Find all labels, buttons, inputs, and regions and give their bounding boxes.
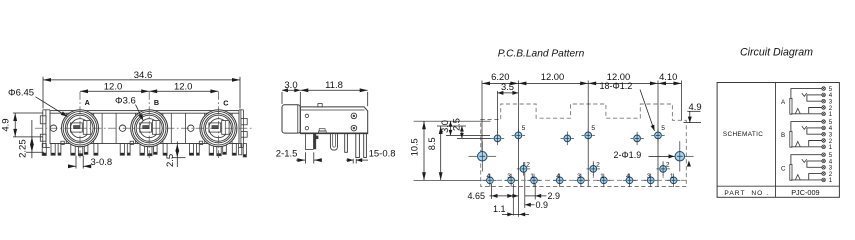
row ext line to 3.0 dim bbox=[446, 134, 490, 136]
dim 2-1.5 bbox=[304, 152, 306, 163]
svg-text:PART NO .: PART NO . bbox=[724, 190, 769, 197]
dim 3-0.8 bbox=[75, 156, 77, 169]
front view: jack centerlines bbox=[79, 92, 81, 158]
jack B: front face bbox=[131, 110, 168, 147]
svg-text:2: 2 bbox=[596, 162, 600, 169]
land pattern: board outline (dashed) bbox=[481, 104, 687, 187]
hole pin1 C bbox=[670, 177, 677, 184]
hole pin2 A bbox=[520, 166, 527, 173]
terminal 1 of A bbox=[822, 112, 826, 116]
svg-text:4: 4 bbox=[626, 173, 630, 180]
dim 0.9 bbox=[525, 204, 535, 206]
svg-text:3.5: 3.5 bbox=[501, 81, 514, 92]
hole pin4 A bbox=[487, 177, 494, 184]
hole pin5 C bbox=[655, 132, 662, 139]
wire pin2 C bbox=[809, 174, 822, 180]
wire pin3 C bbox=[807, 161, 822, 167]
dim 3.5 bbox=[496, 91, 498, 133]
hole pin3 C bbox=[647, 177, 654, 184]
small arrow below right mounting hole bbox=[687, 161, 691, 167]
terminal 3 of B bbox=[822, 132, 826, 136]
terminal 1 of C bbox=[822, 178, 826, 182]
hole shield B bbox=[564, 135, 571, 142]
pins of jack B bbox=[120, 144, 124, 156]
side view: pin row 4 bbox=[364, 134, 367, 158]
mounting hole right (phi 1.9) bbox=[675, 152, 685, 162]
svg-text:2: 2 bbox=[666, 162, 670, 169]
jack B: side contact bbox=[153, 121, 160, 135]
terminal 2 of B bbox=[822, 139, 826, 143]
front view: left bracket leg bbox=[42, 144, 46, 156]
sleeve bar C bbox=[790, 165, 792, 181]
hook pin of jack A bbox=[58, 144, 61, 156]
wire pin1 with switch contact C bbox=[791, 179, 822, 181]
svg-text:12.0: 12.0 bbox=[104, 82, 123, 93]
dim 12.0 B-C bbox=[149, 90, 218, 92]
jack C: side contact bbox=[222, 121, 229, 135]
terminal 4 of A bbox=[822, 93, 826, 97]
wire pin4 with switch contact A bbox=[807, 94, 822, 96]
terminal 4 of B bbox=[822, 126, 826, 130]
wire pin3 B bbox=[807, 128, 822, 134]
wire pin5 A bbox=[791, 89, 822, 99]
svg-text:8.5: 8.5 bbox=[427, 137, 437, 150]
terminal 5 of C bbox=[822, 153, 826, 157]
svg-text:2.5: 2.5 bbox=[165, 154, 176, 167]
sleeve bar A bbox=[790, 98, 792, 114]
dim 3.0 bbox=[281, 92, 283, 104]
svg-text:10.5: 10.5 bbox=[409, 138, 419, 156]
jack C: contact slot bbox=[209, 123, 221, 132]
side view: arch leg bbox=[330, 134, 337, 151]
svg-text:3: 3 bbox=[507, 173, 511, 180]
side view: rivets bbox=[351, 113, 357, 119]
ext verticals bbox=[491, 184, 493, 199]
dim 2.9 bbox=[511, 195, 518, 197]
hole shield A bbox=[494, 135, 501, 142]
pin2 column dashes B C bbox=[592, 161, 594, 180]
svg-text:C: C bbox=[781, 165, 786, 172]
land pattern: column centerlines bbox=[481, 81, 483, 162]
wire pin1 with switch contact A bbox=[791, 113, 822, 115]
pins of jack C bbox=[189, 144, 193, 156]
svg-text:2-Φ1.9: 2-Φ1.9 bbox=[614, 150, 642, 160]
jack B: contact slot bbox=[140, 123, 152, 132]
front view: connector body bbox=[50, 111, 239, 144]
pin2 column line group A bbox=[524, 162, 526, 208]
front view: horizontal centerline bbox=[35, 127, 252, 129]
dim 11.8 bbox=[367, 92, 369, 106]
wire pin1 with switch contact B bbox=[791, 146, 822, 148]
dim 2.5 under B bbox=[172, 157, 186, 159]
svg-text:1.1: 1.1 bbox=[493, 204, 506, 214]
svg-text:4.9: 4.9 bbox=[689, 101, 702, 112]
jack A: contact slot bbox=[71, 123, 83, 132]
svg-text:B: B bbox=[154, 98, 159, 107]
circuit diagram table bbox=[717, 83, 839, 198]
hole pin2 C bbox=[660, 166, 667, 173]
jack C: front face bbox=[200, 110, 237, 147]
hole pin4 B bbox=[556, 177, 563, 184]
svg-text:Φ6.45: Φ6.45 bbox=[8, 88, 34, 99]
wire pin4 with switch contact C bbox=[807, 160, 822, 162]
svg-text:15-0.8: 15-0.8 bbox=[369, 148, 396, 159]
hole pin4 C bbox=[626, 177, 633, 184]
terminal 5 of A bbox=[822, 87, 826, 91]
side view: front bezel bbox=[282, 105, 300, 133]
hole pin2 B bbox=[590, 166, 597, 173]
svg-text:12.00: 12.00 bbox=[541, 71, 564, 82]
dim 8.5 bbox=[440, 126, 442, 180]
hook pin of jack C bbox=[197, 144, 200, 156]
terminal 2 of A bbox=[822, 106, 826, 110]
front view: left mounting bracket bbox=[42, 110, 44, 148]
svg-text:1: 1 bbox=[530, 173, 534, 180]
dim 12.0 A-B bbox=[80, 90, 149, 92]
ref lines bbox=[414, 120, 491, 122]
svg-text:SCHEMATIC: SCHEMATIC bbox=[723, 131, 763, 138]
svg-text:2: 2 bbox=[526, 162, 530, 169]
dim 3.0 vertical bbox=[450, 121, 452, 135]
svg-text:1: 1 bbox=[829, 144, 833, 151]
terminal 4 of C bbox=[822, 159, 826, 163]
front view: right bracket legs bbox=[239, 144, 242, 155]
hole pin3 A bbox=[508, 177, 515, 184]
svg-text:4: 4 bbox=[487, 173, 491, 180]
side view: body bbox=[300, 107, 367, 134]
hook pin of jack B bbox=[127, 144, 130, 156]
wire pin5 C bbox=[791, 155, 822, 165]
svg-text:3: 3 bbox=[577, 173, 581, 180]
wire pin2 B bbox=[809, 141, 822, 147]
svg-text:PJC-009: PJC-009 bbox=[791, 188, 819, 197]
svg-text:2.25: 2.25 bbox=[18, 139, 29, 158]
svg-text:4: 4 bbox=[556, 173, 560, 180]
hole pin5 A bbox=[515, 132, 522, 139]
svg-text:A: A bbox=[85, 98, 90, 107]
dim 15-0.8 bbox=[352, 159, 354, 164]
terminal 3 of A bbox=[822, 99, 826, 103]
wire pin5 B bbox=[791, 122, 822, 132]
front view: right mounting bracket bbox=[240, 110, 242, 148]
svg-text:3.0: 3.0 bbox=[284, 80, 297, 91]
mounting hole left (phi 1.9) bbox=[478, 152, 488, 162]
svg-text:4.65: 4.65 bbox=[468, 191, 486, 201]
terminal 5 of B bbox=[822, 120, 826, 124]
svg-text:1: 1 bbox=[829, 177, 833, 184]
bottom row dashed line bbox=[481, 179, 686, 181]
svg-text:4.10: 4.10 bbox=[659, 71, 677, 82]
svg-text:2.5: 2.5 bbox=[451, 118, 461, 131]
svg-text:34.6: 34.6 bbox=[134, 70, 153, 81]
svg-text:B: B bbox=[781, 132, 785, 139]
svg-text:3: 3 bbox=[647, 173, 651, 180]
svg-text:3-0.8: 3-0.8 bbox=[91, 157, 113, 168]
hole pin1 B bbox=[600, 177, 607, 184]
svg-text:12.0: 12.0 bbox=[174, 82, 193, 93]
dim 4.9 left bbox=[13, 112, 43, 114]
svg-text:C: C bbox=[223, 98, 228, 107]
terminal 2 of C bbox=[822, 172, 826, 176]
svg-text:Circuit Diagram: Circuit Diagram bbox=[740, 46, 813, 58]
dim 34.6 bbox=[42, 77, 44, 109]
hole pin3 B bbox=[578, 177, 585, 184]
terminal 3 of C bbox=[822, 166, 826, 170]
svg-text:0.9: 0.9 bbox=[536, 200, 549, 210]
svg-text:3.0: 3.0 bbox=[440, 120, 450, 133]
svg-text:5: 5 bbox=[591, 125, 595, 132]
jack A: front face bbox=[62, 110, 99, 147]
front view: small panel holes bbox=[50, 125, 56, 131]
svg-text:1: 1 bbox=[829, 111, 833, 118]
top dimension row 6.20 / 12.00 / 12.00 / 4.10 bbox=[482, 82, 682, 84]
sleeve bar B bbox=[790, 131, 792, 147]
hole pin1 A bbox=[531, 177, 538, 184]
side view: pin row 3 bbox=[356, 134, 360, 158]
side view: inner bracket above bottom bbox=[319, 129, 325, 131]
hole pin5 B bbox=[585, 132, 592, 139]
hole shield C bbox=[634, 135, 641, 142]
side view: top tab bbox=[318, 104, 322, 107]
wire pin2 A bbox=[809, 108, 822, 114]
side view: front leg bbox=[304, 134, 306, 150]
svg-text:5: 5 bbox=[522, 125, 526, 132]
dim 2.5 vertical bbox=[461, 126, 463, 138]
svg-text:1: 1 bbox=[670, 173, 674, 180]
svg-text:2.9: 2.9 bbox=[548, 191, 561, 201]
jack A: side contact bbox=[83, 121, 90, 135]
dim 2.25 left bbox=[26, 151, 44, 153]
side view: middle pin bbox=[345, 134, 348, 153]
svg-text:18-Φ1.2: 18-Φ1.2 bbox=[600, 81, 633, 91]
dim 10.5 bbox=[423, 121, 425, 180]
svg-text:5: 5 bbox=[661, 125, 665, 132]
wire pin4 with switch contact B bbox=[807, 127, 822, 129]
terminal 1 of B bbox=[822, 145, 826, 149]
svg-text:2-1.5: 2-1.5 bbox=[276, 148, 298, 159]
svg-text:1: 1 bbox=[600, 173, 604, 180]
wire pin3 A bbox=[807, 95, 822, 101]
svg-text:Φ3.6: Φ3.6 bbox=[115, 95, 136, 106]
svg-text:4.9: 4.9 bbox=[1, 118, 12, 131]
pins of jack A bbox=[51, 144, 55, 156]
svg-text:P.C.B.Land Pattern: P.C.B.Land Pattern bbox=[498, 48, 585, 59]
svg-text:11.8: 11.8 bbox=[325, 80, 343, 91]
